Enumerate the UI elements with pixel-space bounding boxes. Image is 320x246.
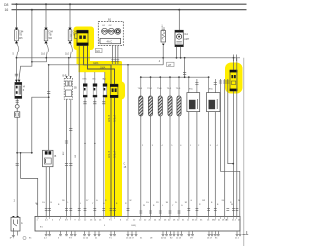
svg-text:GMA: GMA	[93, 62, 99, 65]
injector wire labels mid	[142, 145, 219, 147]
injector 30	[157, 77, 162, 216]
svg-text:1L6: 1L6	[41, 53, 46, 56]
highlight core (sharp)	[76, 29, 242, 217]
ECU pin slots top row	[38, 216, 240, 219]
highlight: bulge at center component	[108, 82, 126, 100]
ECU pin numbers	[37, 220, 237, 222]
svg-text:T5-8: T5-8	[138, 88, 143, 90]
distributor assembly B1	[98, 17, 123, 45]
highlight: right component blob	[225, 63, 243, 94]
highlight: check connector blob	[74, 27, 95, 51]
svg-text:ANL B: ANL B	[108, 151, 111, 158]
rail end connector ticks	[234, 55, 237, 62]
svg-text:1L0: 1L0	[65, 53, 70, 56]
wire: fuse1 drop	[16, 4, 18, 28]
check connector (yellow)	[70, 30, 88, 45]
noise filter circle	[15, 105, 19, 109]
bus line D8	[4, 3, 247, 7]
svg-text:1G: 1G	[42, 202, 45, 204]
svg-text:B1: B1	[108, 17, 112, 21]
solenoid VSV 1	[187, 77, 200, 216]
wires igniter to rail	[176, 47, 178, 58]
wire: yellow pin B	[88, 46, 115, 217]
wire: C-15 drop	[127, 65, 129, 217]
right yellow component	[230, 58, 238, 91]
highlight group: yellow marker path	[74, 27, 243, 218]
wire: staircase to ECU pin 38	[21, 153, 38, 217]
extra pin numbers in ECU	[52, 220, 241, 227]
wire: bus2 drop x=31.9 to coil bend	[19, 10, 32, 81]
svg-text:GMA: GMA	[100, 66, 106, 69]
svg-text:2G: 2G	[222, 200, 225, 202]
extra wire labels above ECU	[42, 200, 240, 205]
svg-text:HC: HC	[96, 49, 100, 53]
main rail y=57.8	[17, 57, 241, 59]
O2 sensor B	[43, 150, 57, 166]
wire: fuse2 branch below rail	[32, 58, 47, 62]
highlight: vertical center band	[105, 62, 122, 218]
injector 10	[138, 77, 143, 216]
svg-text:ANL A: ANL A	[113, 115, 116, 122]
svg-text:2J: 2J	[162, 25, 164, 27]
wire: fuse2 drop	[45, 4, 47, 28]
small capacitor box	[15, 108, 20, 117]
svg-text:D8: D8	[4, 3, 8, 7]
highlight: horizontal band to center	[79, 61, 122, 72]
fuse F2	[41, 28, 54, 58]
svg-text:B-R: B-R	[63, 76, 67, 78]
svg-text:3B: 3B	[74, 88, 77, 90]
svg-text:W: W	[231, 204, 233, 206]
wire: x=16.5 rail to ignition coil	[16, 58, 18, 83]
svg-text:T2-4: T2-4	[147, 88, 152, 90]
tick feet row 2	[45, 235, 241, 237]
wire below coil	[16, 98, 18, 104]
svg-text:W: W	[143, 205, 145, 207]
svg-text:W: W	[36, 204, 38, 206]
wire: yellow pin A	[84, 46, 111, 217]
ECU inner labels	[40, 225, 136, 229]
svg-text:1W: 1W	[202, 200, 205, 202]
comp I55	[92, 72, 97, 216]
junction dots on buses	[16, 3, 181, 11]
dashed component (solenoid resistor)	[63, 58, 78, 99]
wires: sensor to ECU	[45, 167, 47, 217]
svg-text:T5-1: T5-1	[167, 88, 172, 90]
HC label box	[95, 48, 102, 52]
HT label box	[167, 62, 174, 66]
svg-text:1G: 1G	[146, 202, 149, 204]
wire: connector grey pin to ECU	[78, 46, 80, 217]
injector 40	[167, 77, 172, 216]
svg-text:AMT: AMT	[184, 38, 189, 41]
svg-text:ANL B: ANL B	[108, 115, 111, 122]
svg-text:E01{: E01{	[132, 225, 137, 227]
right cluster wires	[236, 58, 238, 217]
EFI relay (bottom left)	[10, 216, 33, 240]
wire dots	[84, 143, 85, 144]
wire labels above ECU	[36, 203, 233, 207]
junction dot	[16, 152, 18, 154]
sub-rail dots	[140, 76, 210, 78]
fuse F1	[13, 28, 25, 58]
yellow path component	[110, 84, 118, 97]
wire: O2 sensor loop	[17, 97, 49, 153]
svg-text:40 50: 40 50	[161, 238, 167, 240]
extra labels below ECU	[95, 238, 218, 240]
svg-text:16 17: 16 17	[207, 238, 213, 240]
wire: band continuation to rail	[49, 64, 164, 66]
tick on coil wire	[16, 164, 19, 166]
comp IA5	[102, 72, 107, 216]
svg-text:W: W	[130, 200, 132, 202]
wire: yellow comp down with jog	[233, 91, 235, 216]
igniter / coil component right	[175, 30, 190, 46]
injector 20	[147, 77, 152, 216]
bus line 16	[5, 8, 247, 12]
fuse F3	[65, 28, 78, 58]
svg-text:15 16 17: 15 16 17	[126, 238, 135, 240]
svg-text:G: G	[70, 35, 72, 38]
connector ticks on wire x=66.5	[65, 129, 73, 166]
injector 50	[176, 77, 181, 216]
wire: fuse3 drop	[69, 4, 71, 28]
connector ticks above ECU	[45, 209, 239, 214]
sub-rail feed	[184, 58, 186, 77]
right border line	[243, 58, 245, 246]
svg-text:T5-9: T5-9	[176, 88, 181, 90]
resistor component (top middle)	[159, 25, 166, 65]
ignition coil T1	[15, 74, 26, 98]
svg-text:T5-6: T5-6	[157, 88, 162, 90]
svg-text:B: B	[55, 154, 57, 158]
wire: coil column down to relay	[16, 117, 18, 217]
svg-text:12 14: 12 14	[83, 238, 89, 240]
below-ECU stubs and ticks	[46, 231, 247, 234]
svg-text:HT: HT	[168, 63, 172, 67]
rail junction dots	[16, 57, 235, 59]
highlight: connector pin stubs	[77, 45, 91, 64]
svg-text:16: 16	[5, 8, 9, 12]
svg-text:4A C: 4A C	[107, 40, 113, 44]
wires: dashed comp to ECU	[66, 99, 68, 216]
tick feet	[45, 233, 248, 235]
svg-text:W: W	[238, 200, 240, 202]
wires: distributor to yellow band	[112, 46, 114, 65]
injector sub-rail	[141, 76, 209, 78]
svg-text:ANL A: ANL A	[113, 151, 116, 158]
solenoid VSV 2	[207, 77, 221, 216]
ECU connector box	[35, 216, 240, 231]
comp K55	[83, 72, 88, 216]
below-ECU labels	[44, 238, 240, 240]
wire: igniter drop from bus2	[178, 10, 180, 31]
